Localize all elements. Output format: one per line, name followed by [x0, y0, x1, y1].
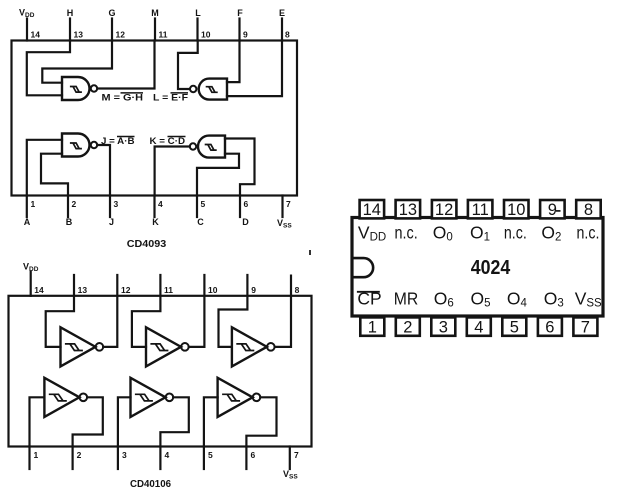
op gate4 output wire to pin4: [155, 147, 190, 196]
svg-text:11: 11: [164, 285, 173, 295]
wire pin6 stub: [239, 196, 241, 218]
svg-text:6: 6: [244, 199, 249, 209]
nand gate U4 bubble: [190, 143, 196, 149]
wire pin4 stub: [153, 196, 155, 218]
svg-text:2: 2: [77, 450, 82, 460]
inverter A6 bubble: [253, 394, 261, 402]
svg-text:6: 6: [251, 450, 256, 460]
svg-text:M: M: [151, 8, 159, 18]
svg-text:3: 3: [122, 450, 127, 460]
wire pin5 to inv6 input: [204, 397, 218, 446]
svg-text:7: 7: [294, 450, 299, 460]
wire pin7 stub bottom: [289, 447, 291, 470]
stray mark in box 9: [556, 210, 561, 212]
nand gate U3 bubble: [91, 142, 97, 148]
inverter A2 bubble: [181, 343, 189, 351]
svg-text:12: 12: [435, 201, 453, 219]
wire pin2 stub: [67, 196, 69, 218]
schmitt symbol U4: [205, 145, 217, 151]
svg-text:10: 10: [507, 201, 525, 219]
wire pin9 top to inv3 input: [219, 275, 248, 347]
pin box 2: [396, 317, 420, 335]
svg-text:L = E·F: L = E·F: [153, 93, 189, 103]
svg-text:VDD: VDD: [23, 262, 39, 273]
svg-text:CD4093: CD4093: [127, 238, 167, 250]
pin box 7: [573, 317, 597, 335]
svg-text:K: K: [152, 217, 159, 227]
svg-text:10: 10: [201, 30, 211, 40]
wire pin12 top to inv1 output: [103, 275, 117, 347]
svg-text:12: 12: [116, 30, 126, 40]
schmitt symbol A1: [65, 344, 83, 351]
wire pin9 to gate2 upper input: [227, 41, 240, 83]
svg-text:H: H: [67, 8, 74, 18]
svg-text:14: 14: [31, 30, 41, 40]
wire pin1 stub: [26, 196, 28, 218]
schmitt symbol A3: [236, 344, 254, 351]
svg-text:K = C·D: K = C·D: [150, 136, 186, 146]
IC body 4024: [352, 218, 603, 317]
overbar C.D: [168, 136, 186, 138]
wire pin6 to gate4 upper input: [225, 139, 255, 196]
inverter A5 bubble: [166, 394, 174, 402]
schmitt symbol U3: [70, 143, 82, 149]
svg-text:13: 13: [74, 30, 84, 40]
pin box 12: [432, 200, 457, 218]
wire pin3 stub: [109, 196, 111, 218]
wire pin2 stub bottom: [71, 447, 73, 470]
nand gate U3 body: [62, 134, 90, 157]
pin box 1: [360, 317, 384, 335]
chip body CD4093: [12, 41, 298, 196]
wire pin13 stub: [69, 19, 71, 41]
pin box 5: [502, 317, 526, 335]
svg-text:14: 14: [34, 285, 44, 295]
wire pin11 top to inv2 input: [132, 275, 161, 347]
svg-text:10: 10: [208, 285, 218, 295]
overbar CP: [357, 291, 380, 293]
wire pin10 to gate2 output: [178, 41, 198, 90]
svg-text:2: 2: [72, 199, 77, 209]
inverter A5 triangle: [131, 378, 166, 417]
stray mark: [309, 250, 311, 255]
wire pin5 stub bottom: [203, 447, 205, 470]
svg-text:E: E: [279, 8, 285, 18]
svg-text:J = A·B: J = A·B: [101, 136, 135, 146]
svg-text:MR: MR: [394, 289, 419, 309]
pin box 3: [431, 317, 455, 335]
svg-text:9: 9: [251, 285, 256, 295]
pin box 9: [540, 200, 565, 218]
inverter A4 triangle: [44, 378, 79, 417]
wire pin11 stub: [154, 19, 156, 41]
wire pin3 to inv5 input: [118, 397, 131, 446]
schmitt symbol A5: [135, 394, 153, 401]
svg-text:7: 7: [581, 318, 590, 336]
schmitt symbol U2: [206, 87, 218, 93]
wire pin13 to gate1 lower input: [27, 41, 70, 96]
svg-text:4024: 4024: [471, 257, 511, 279]
wire pin5 stub: [196, 196, 198, 218]
svg-text:4: 4: [165, 450, 170, 460]
op gate1 output wire to pin11: [97, 41, 154, 89]
svg-text:11: 11: [472, 201, 489, 219]
pin box 14: [360, 200, 385, 218]
wire pin14 stub top: [30, 272, 32, 296]
wire pin12 to gate1 upper input: [42, 41, 112, 83]
wire pin8 to gate2 lower input: [227, 41, 282, 97]
inverter A4 bubble: [80, 394, 88, 402]
notch: [354, 258, 374, 277]
wire inv5 output to pin4: [160, 397, 188, 446]
wire inv6 output to pin6: [246, 397, 276, 446]
svg-text:G: G: [108, 8, 115, 18]
pin box 10: [504, 200, 529, 218]
svg-text:3: 3: [114, 199, 119, 209]
nand gate U2 body (mirrored): [199, 79, 227, 100]
svg-text:11: 11: [159, 30, 168, 40]
pin box 13: [396, 200, 421, 218]
svg-text:8: 8: [584, 201, 593, 219]
svg-text:1: 1: [368, 318, 377, 336]
overbar G.H: [121, 92, 144, 94]
inverter A3 bubble: [267, 343, 275, 351]
wire pin1 to gate3 upper input: [27, 140, 62, 196]
svg-text:5: 5: [208, 450, 213, 460]
nand gate U1 body: [62, 77, 89, 100]
svg-text:n.c.: n.c.: [504, 223, 527, 243]
svg-text:5: 5: [201, 199, 206, 209]
svg-text:12: 12: [121, 285, 131, 295]
svg-text:9: 9: [548, 201, 557, 219]
inverter A1 bubble: [96, 343, 104, 351]
svg-text:L: L: [195, 8, 201, 18]
inverter A2 triangle: [146, 327, 181, 366]
wire pin14 stub: [26, 19, 28, 41]
svg-text:2: 2: [403, 318, 412, 336]
wire pin2 to gate3 lower input: [41, 154, 68, 196]
inverter A1 triangle: [61, 327, 96, 366]
nand gate U1 bubble: [91, 85, 97, 91]
svg-text:5: 5: [510, 318, 519, 336]
wire inv4 output to pin2: [73, 397, 103, 446]
wire pin8 top to inv3 output: [275, 276, 291, 347]
svg-text:VDD: VDD: [19, 8, 35, 19]
schmitt symbol A2: [150, 344, 168, 351]
overbar E.F: [171, 92, 189, 94]
svg-text:7: 7: [286, 199, 291, 209]
svg-text:3: 3: [439, 318, 448, 336]
schmitt symbol A6: [222, 394, 240, 401]
wire pin4 stub bottom: [159, 447, 161, 470]
svg-text:4: 4: [158, 199, 163, 209]
wire pin6 stub bottom: [245, 447, 247, 470]
svg-text:J: J: [109, 217, 114, 227]
pin box 4: [467, 317, 491, 335]
inverter A6 triangle: [218, 378, 253, 417]
wire pin13 top to inv1 input: [46, 275, 74, 347]
op gate3 output wire to pin3: [97, 145, 110, 196]
pin box 11: [468, 200, 493, 218]
wire pin5 to gate4 lower input: [197, 154, 239, 196]
svg-text:13: 13: [78, 285, 88, 295]
svg-text:8: 8: [285, 30, 290, 40]
nand gate U2 bubble: [190, 86, 196, 92]
pin box 8: [576, 200, 601, 218]
svg-text:n.c.: n.c.: [577, 223, 600, 243]
svg-text:A: A: [24, 217, 31, 227]
wire pin3 stub bottom: [117, 447, 119, 470]
wire pin10 top to inv2 output: [189, 275, 205, 347]
svg-text:F: F: [237, 8, 243, 18]
svg-text:n.c.: n.c.: [395, 223, 418, 243]
wire pin8 stub: [281, 19, 283, 41]
svg-text:6: 6: [545, 318, 554, 336]
schmitt symbol A4: [49, 394, 67, 401]
overbar A.B: [117, 136, 135, 138]
nand gate U4 body (mirrored): [198, 136, 225, 158]
svg-text:B: B: [66, 217, 73, 227]
pin box 6: [538, 317, 562, 335]
wire pin9 stub: [238, 19, 240, 41]
svg-text:1: 1: [34, 450, 39, 460]
chip body CD40106: [9, 296, 312, 447]
svg-text:VSS: VSS: [283, 469, 298, 481]
svg-text:D: D: [242, 217, 249, 227]
wire pin1 stub bottom: [28, 447, 30, 470]
svg-text:9: 9: [243, 30, 248, 40]
svg-text:4: 4: [474, 318, 483, 336]
svg-text:CD40106: CD40106: [130, 478, 171, 490]
svg-text:M = G·H: M = G·H: [102, 93, 144, 103]
inverter A3 triangle: [232, 327, 267, 366]
schmitt symbol U1: [70, 87, 82, 93]
wire pin10 stub: [196, 19, 198, 41]
svg-text:14: 14: [363, 201, 381, 219]
svg-text:1: 1: [31, 199, 36, 209]
svg-text:13: 13: [399, 201, 417, 219]
svg-text:8: 8: [295, 285, 300, 295]
wire pin12 stub: [111, 19, 113, 41]
wire pin7 stub: [281, 196, 283, 218]
wire pin1 to inv4 input: [30, 397, 45, 446]
svg-text:VSS: VSS: [277, 218, 292, 230]
svg-text:C: C: [197, 217, 204, 227]
